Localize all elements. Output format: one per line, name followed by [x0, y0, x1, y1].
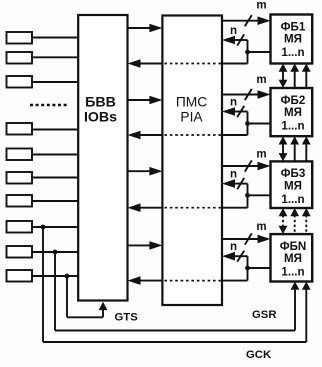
- block FB1 ФБ1: [271, 15, 313, 64]
- svg-text:1...n: 1...n: [281, 120, 304, 133]
- block FB2 ФБ2: [271, 88, 313, 136]
- svg-text:ФБ3: ФБ3: [281, 167, 306, 180]
- junction node on pad P9 wire (GSR tap): [53, 250, 58, 255]
- net GCK wire: [42, 227, 44, 342]
- pad P4: [7, 123, 33, 135]
- block U1 BVV IOBs: [78, 15, 127, 301]
- svg-text:GTS: GTS: [115, 312, 139, 324]
- svg-text:m: m: [256, 74, 266, 86]
- node junction group 4: [245, 266, 250, 271]
- node junction group 2: [245, 121, 250, 126]
- wire global GCK segment gap 2: [305, 143, 307, 161]
- pad P5: [7, 149, 33, 161]
- bus n group 1 FB1 to PMS: [233, 39, 248, 41]
- wire vertical jog group 4: [247, 256, 249, 280]
- wire node to FB1: [248, 51, 271, 53]
- svg-text:МЯ: МЯ: [284, 106, 302, 119]
- block FB4 ФБN: [271, 234, 313, 281]
- svg-text:GSR: GSR: [252, 309, 276, 321]
- wire BVV to PMS group 2: [128, 99, 152, 101]
- junction node on pad P10 wire (GTS tap): [65, 274, 70, 279]
- svg-text:IOBs: IOBs: [84, 110, 117, 126]
- svg-text:БВВ: БВВ: [85, 95, 116, 111]
- svg-text:МЯ: МЯ: [284, 33, 302, 46]
- bus m group 3 PMS to FB3: [222, 165, 260, 167]
- bus n group 4 FB4 to PMS: [233, 255, 248, 257]
- wire pad P5 to BVV: [32, 154, 78, 156]
- wire cascade chain FB2-FB3: [282, 143, 284, 154]
- bus width slash n group 2: [237, 106, 244, 117]
- bus width slash m group 1: [245, 15, 252, 26]
- bus width slash m group 2: [245, 89, 252, 100]
- wire cascade chain FB1-FB2: [282, 71, 284, 82]
- svg-text:ФБ2: ФБ2: [281, 94, 306, 107]
- wire node to FB4: [248, 267, 271, 269]
- wire node to FB3: [248, 194, 271, 196]
- pad P6: [7, 172, 33, 184]
- svg-text:GCK: GCK: [246, 349, 272, 361]
- pad P1: [7, 32, 33, 44]
- bus m group 4 PMS to FB4: [222, 238, 260, 240]
- wire pad P8 to BVV: [32, 226, 78, 228]
- svg-text:m: m: [256, 149, 266, 161]
- wire BVV to PMS group 1: [128, 27, 152, 29]
- svg-text:n: n: [230, 169, 237, 181]
- wire BVV to PMS group 4: [128, 244, 152, 246]
- svg-text:1...n: 1...n: [281, 266, 304, 279]
- pad P7: [7, 195, 33, 207]
- wire direct FB3 outputs to BVV (dashed through PIA): [222, 207, 248, 209]
- wire pad P1 to BVV: [32, 37, 78, 39]
- wire pad P7 to BVV: [32, 200, 78, 202]
- svg-text:1...n: 1...n: [281, 46, 304, 59]
- wire BVV to PMS group 3: [128, 170, 152, 172]
- bus width slash n group 4: [237, 251, 244, 262]
- svg-text:n: n: [230, 25, 237, 37]
- svg-text:МЯ: МЯ: [284, 179, 302, 192]
- wire pad P9 to BVV: [32, 251, 78, 253]
- svg-text:PIA: PIA: [180, 110, 203, 125]
- pad P2: [7, 52, 33, 64]
- bus width slash m group 4: [245, 233, 252, 244]
- wire global GSR segment gap 1: [294, 71, 296, 89]
- node junction group 1: [245, 50, 250, 55]
- block FB3 ФБ3: [271, 161, 313, 208]
- wire global GCK segment gap 1: [305, 71, 307, 89]
- junction node on pad P8 wire (GCK tap): [41, 225, 46, 230]
- svg-text:1...n: 1...n: [281, 193, 304, 206]
- svg-text:ПМС: ПМС: [176, 95, 207, 110]
- svg-text:МЯ: МЯ: [284, 252, 302, 265]
- svg-text:n: n: [230, 97, 237, 109]
- wire global GSR segment gap 2: [294, 143, 296, 161]
- block U2 PMS PIA: [162, 16, 222, 306]
- bus m group 1 PMS to FB1: [222, 20, 260, 22]
- node junction group 3: [245, 193, 250, 198]
- wire cascade chain FB3-FB4: [282, 215, 284, 227]
- net GSR wire: [54, 252, 56, 331]
- bus n group 2 FB2 to PMS: [233, 111, 248, 113]
- wire global GCK segment gap 3: [305, 215, 307, 234]
- bus n group 3 FB3 to PMS: [233, 183, 248, 185]
- pad P8: [7, 221, 33, 233]
- wire vertical jog group 1: [247, 40, 249, 64]
- wire pad P2 to BVV: [32, 56, 78, 58]
- net GTS wire: [66, 276, 68, 317]
- ellipsis dots (more pads): [30, 104, 68, 107]
- svg-text:m: m: [256, 221, 266, 233]
- pad P10: [7, 270, 33, 282]
- pad P9: [7, 246, 33, 258]
- bus width slash n group 1: [237, 34, 244, 45]
- svg-text:ФБN: ФБN: [280, 240, 307, 253]
- wire direct FB1 outputs to BVV (dashed through PIA): [222, 63, 248, 65]
- wire pad P6 to BVV: [32, 177, 78, 179]
- wire global GSR segment gap 3: [294, 215, 296, 234]
- svg-text:m: m: [256, 0, 266, 12]
- pad P3: [7, 76, 33, 88]
- wire pad P4 to BVV: [32, 129, 78, 131]
- wire node to FB2: [248, 123, 271, 125]
- bus width slash n group 3: [237, 178, 244, 189]
- svg-text:ФБ1: ФБ1: [281, 20, 306, 33]
- bus width slash m group 3: [245, 160, 252, 171]
- wire direct FB4 outputs to BVV (dashed through PIA): [222, 280, 248, 282]
- wire pad P10 to BVV: [32, 275, 78, 277]
- wire vertical jog group 2: [247, 112, 249, 136]
- bus m group 2 PMS to FB2: [222, 94, 260, 96]
- svg-text:n: n: [230, 241, 237, 253]
- wire vertical jog group 3: [247, 184, 249, 208]
- wire direct FB2 outputs to BVV (dashed through PIA): [222, 134, 248, 136]
- wire pad P3 to BVV: [32, 81, 78, 83]
